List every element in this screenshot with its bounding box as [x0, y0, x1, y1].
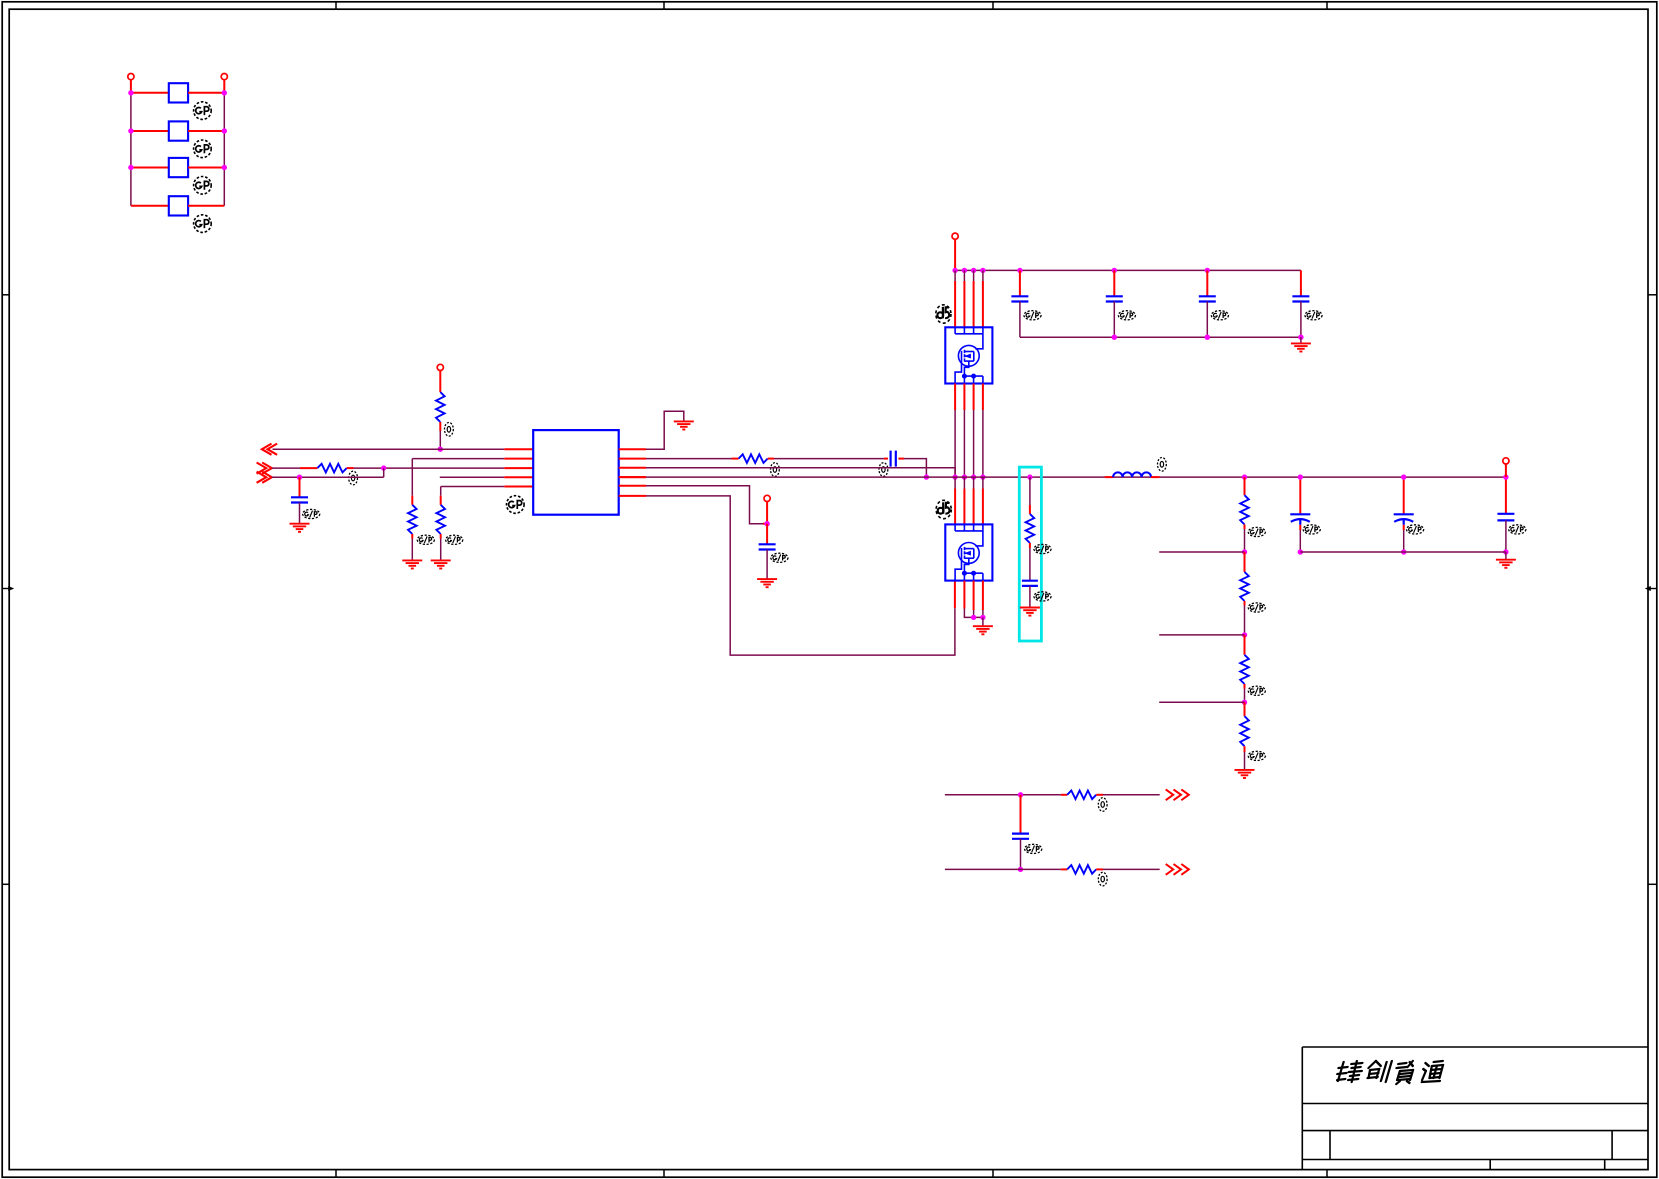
- junction top rail C4: [1017, 268, 1022, 273]
- wire C6 red below: [1403, 525, 1405, 530]
- wire R8 top red: [1244, 552, 1246, 572]
- capacitor C5: [1290, 514, 1310, 525]
- node P1 terminal left: [128, 74, 134, 80]
- wire w1 Q1 to rail red: [954, 384, 956, 411]
- wire rpin2 c: [904, 459, 926, 478]
- label R7 GP: [1248, 527, 1265, 536]
- wire pin5 vertical: [440, 487, 442, 496]
- wire R1 top stub: [439, 371, 441, 392]
- label GP jumper J4: [194, 215, 212, 233]
- wire R4 bottom red: [440, 534, 442, 539]
- wire rpin2 b: [774, 458, 884, 460]
- wire rpin2 red into R5: [732, 458, 739, 460]
- wire Q2 s3 red: [973, 581, 975, 610]
- capacitor C2: [891, 451, 896, 467]
- junction out rail C5: [1298, 549, 1303, 554]
- resistor R8: [1240, 572, 1249, 601]
- wire jumper row 1 right: [188, 92, 224, 94]
- wire outA b: [1103, 794, 1160, 796]
- wire bottom rail gnd stub: [1300, 337, 1302, 343]
- wire w2 rail to Q1 purple: [963, 270, 965, 281]
- wire C6 top red: [1403, 477, 1405, 514]
- connector input row1 chevrons: [262, 444, 277, 455]
- label C4 GP: [1024, 311, 1041, 320]
- junction outA tap: [1018, 792, 1023, 797]
- ground output bank: [1496, 560, 1516, 568]
- capacitor C7: [1292, 296, 1309, 301]
- label C6 GP: [1211, 311, 1228, 320]
- ground C3: [757, 579, 777, 587]
- junction top rail w1: [952, 268, 957, 273]
- label C1 GP: [303, 509, 320, 518]
- company name text: [1336, 1061, 1364, 1082]
- connector outB chevrons: [1166, 864, 1189, 875]
- ground R4: [431, 560, 451, 568]
- wire w1 Q1 to rail purple: [954, 410, 956, 477]
- wire VIN stub: [954, 239, 956, 270]
- wire w4 rail to Q1 purple: [982, 270, 984, 281]
- wire C7 top red: [1505, 477, 1507, 514]
- label R10 GP: [1248, 751, 1265, 760]
- wire outB a: [945, 868, 1061, 870]
- wire C5 top stub: [1113, 270, 1115, 296]
- wire rpin5 stub: [619, 485, 646, 487]
- wire out bottom rail: [1300, 551, 1506, 553]
- wire rpin2 stub: [619, 458, 646, 460]
- wire row3 a: [272, 467, 300, 469]
- wire C5 bottom: [1113, 302, 1115, 338]
- wire C5 top red: [1299, 477, 1301, 514]
- capacitor C6: [1199, 296, 1216, 301]
- junction R1 row1: [438, 447, 443, 452]
- wire row1 purple: [273, 448, 505, 450]
- wire R12 right red: [1096, 868, 1103, 870]
- wire rpin3 purple: [646, 468, 955, 477]
- label C2 value: [879, 463, 888, 477]
- capacitor C5: [1106, 296, 1123, 301]
- wire C7 bottom: [1505, 520, 1507, 552]
- label C5 GP: [1118, 311, 1135, 320]
- wire R2 bottom red: [411, 534, 413, 539]
- wire main rail: [646, 476, 1506, 478]
- wire R9 top red: [1244, 635, 1246, 655]
- ground C1: [290, 524, 310, 532]
- wire R2 top stub: [411, 496, 413, 505]
- wire jumper row 4 left: [131, 205, 169, 207]
- label C7 GP: [1509, 525, 1526, 534]
- wire inductor right red: [1151, 476, 1159, 478]
- wire R10 to ground: [1244, 752, 1246, 770]
- wire Q2 gate red: [954, 581, 956, 609]
- wire outB b: [1103, 868, 1160, 870]
- wire pin5 purple: [441, 486, 505, 488]
- wire rpin1 to ground: [646, 411, 684, 449]
- label R9 GP: [1248, 686, 1265, 695]
- label R12 value: [1098, 872, 1107, 886]
- wire rpin5 red to node: [763, 523, 767, 525]
- ground U1 pin1: [674, 421, 694, 429]
- wire w2 Q1 to rail purple: [963, 410, 965, 477]
- node P2 terminal right: [221, 74, 227, 80]
- wire C7 top stub: [1300, 270, 1302, 296]
- label GP U1: [507, 496, 525, 514]
- wire w4 rail to Q2 red: [982, 489, 984, 525]
- transistor Q2: [945, 524, 992, 580]
- wire jumper row 2 right: [188, 130, 224, 132]
- node VIN terminal: [952, 233, 958, 239]
- junction main rail w4: [980, 474, 985, 479]
- wire C1 to ground: [299, 503, 301, 524]
- node VCC terminal R1: [437, 364, 443, 370]
- label R8 GP: [1248, 603, 1265, 612]
- junction left rail row 1: [128, 90, 133, 95]
- wire C5 bottom: [1299, 530, 1301, 552]
- capacitor C3: [759, 544, 776, 549]
- wire jumper row 3 right: [188, 167, 224, 169]
- wire Q2 s4 red: [982, 581, 984, 610]
- wire outA a: [945, 794, 1061, 796]
- wire w1 rail to Q1 purple: [954, 270, 956, 281]
- jumper J1: [169, 83, 188, 102]
- wire pin2 purple: [412, 458, 504, 460]
- wire w1 rail to Q2 red: [954, 489, 956, 525]
- wire sense a: [1029, 477, 1031, 505]
- wire R11 left red: [1061, 794, 1067, 796]
- wire Q2 s2 red: [963, 581, 965, 609]
- wire C7 bottom: [1300, 302, 1302, 338]
- ground R2: [402, 560, 422, 568]
- wire R12 left red: [1061, 868, 1067, 870]
- junction right rail row 3: [222, 165, 227, 170]
- wire top rail: [955, 269, 1301, 271]
- jumper J2: [169, 121, 188, 140]
- junction outB tap: [1018, 867, 1023, 872]
- wire divider tap1: [1159, 551, 1244, 553]
- junction C3 node: [764, 521, 769, 526]
- wire w3 rail to Q2 red: [973, 489, 975, 525]
- title block: [1302, 1047, 1648, 1170]
- capacitor C6: [1394, 514, 1414, 525]
- wire w4 rail to Q1 red: [982, 281, 984, 327]
- border center arrow right: [1645, 586, 1657, 591]
- junction left rail row 2: [128, 128, 133, 133]
- wire R8 to node: [1244, 606, 1246, 635]
- wire R10 bottom red: [1244, 746, 1246, 752]
- label R6 GP: [1034, 544, 1051, 553]
- wire rpin5 purple: [646, 486, 763, 524]
- junction top rail w4: [980, 268, 985, 273]
- wire C8 to ground: [1029, 586, 1031, 608]
- wire R8 bottom red: [1244, 601, 1246, 606]
- label R4 GP: [446, 535, 463, 544]
- wire top cap bank bottom rail: [1020, 336, 1301, 338]
- wire pin2 stub: [504, 458, 533, 460]
- wire w3 rail to Q2 purple: [973, 477, 975, 488]
- resistor R6: [1026, 514, 1035, 543]
- jumper J4: [169, 196, 188, 215]
- junction right rail row 1: [222, 90, 227, 95]
- wire rpin6 stub: [619, 495, 646, 497]
- wire C6 bottom: [1403, 530, 1405, 552]
- wire pin2 vertical: [411, 459, 413, 496]
- border center arrow left: [2, 586, 14, 591]
- wire R7 top red: [1244, 477, 1246, 495]
- resistor R11: [1067, 791, 1096, 800]
- node VOUT terminal: [1503, 458, 1509, 464]
- junction rpin2 rail: [924, 474, 929, 479]
- junction divider node3: [1242, 700, 1247, 705]
- wire C1 top stub: [299, 477, 301, 497]
- wire R4 top stub: [440, 496, 442, 505]
- capacitor C9: [1012, 834, 1029, 839]
- wire right rail: [223, 93, 225, 206]
- wire C3 to ground: [766, 550, 768, 580]
- junction main rail w3: [971, 474, 976, 479]
- resistor R7: [1240, 495, 1249, 524]
- label R5 value: [771, 463, 780, 477]
- junction C1 tap: [297, 475, 302, 480]
- node terminal C3: [764, 495, 770, 501]
- wire w2 rail to Q2 red: [963, 489, 965, 525]
- label R2 GP: [417, 535, 434, 544]
- label L1 value: [1158, 458, 1167, 472]
- wire jumper row 1 left: [131, 92, 169, 94]
- wire rpin2 red out R5: [768, 458, 774, 460]
- junction right rail row 2: [222, 128, 227, 133]
- wire rpin3 stub: [619, 467, 646, 469]
- wire C4 bottom: [1019, 302, 1021, 338]
- junction bottom rail c: [1298, 335, 1303, 340]
- wire Q2 s3 purple: [973, 610, 975, 617]
- wire jumper row 2 left: [131, 130, 169, 132]
- wire R1 bottom to row: [439, 431, 441, 449]
- wire w3 Q1 to rail red: [973, 384, 975, 411]
- wire terminal right stub: [223, 80, 225, 93]
- junction rail C6: [1401, 474, 1406, 479]
- wire row3 pin stub: [504, 467, 533, 469]
- resistor R5: [739, 454, 768, 463]
- wire Q2 source to ground: [982, 617, 984, 626]
- junction rail C7: [1503, 474, 1508, 479]
- wire Q2 s2 purple: [964, 609, 983, 618]
- junction out rail C7: [1503, 549, 1508, 554]
- wire R7 bottom red: [1244, 524, 1246, 529]
- wire divider tap3: [1159, 701, 1244, 703]
- label C6 GP: [1407, 525, 1424, 534]
- wire w3 rail to Q1 purple: [973, 270, 975, 281]
- wire C4 top stub: [1019, 270, 1021, 296]
- label C5 GP: [1303, 525, 1320, 534]
- wire jumper row 4 right: [188, 205, 224, 207]
- junction node row3: [381, 465, 386, 470]
- label Q1 designator: [936, 305, 951, 323]
- wire w2 rail to Q1 red: [963, 281, 965, 327]
- wire R10 top red: [1244, 702, 1246, 716]
- wire R11 right red: [1096, 794, 1103, 796]
- junction sense tap: [1027, 474, 1032, 479]
- label R3 value: [349, 471, 358, 485]
- junction Q2 source b: [980, 615, 985, 620]
- ground top cap bank: [1291, 343, 1311, 351]
- ground Q2 source: [973, 626, 993, 634]
- resistor R12: [1067, 865, 1096, 874]
- label GP jumper J1: [194, 102, 212, 120]
- wire w4 Q1 to rail purple: [982, 410, 984, 477]
- junction left rail row 3: [128, 165, 133, 170]
- wire row4 purple: [272, 476, 384, 478]
- wire w1 rail to Q1 red: [954, 281, 956, 327]
- connector input row4 chevrons: [257, 472, 272, 483]
- capacitor C8: [1022, 581, 1038, 586]
- resistor R9: [1240, 655, 1249, 684]
- junction bottom rail b: [1205, 335, 1210, 340]
- wire R1 bottom stub red: [439, 422, 441, 431]
- junction divider node1: [1242, 549, 1247, 554]
- label R11 value: [1098, 798, 1107, 812]
- label Q2 designator: [936, 500, 951, 518]
- resistor R3: [317, 464, 346, 473]
- wire row3 b: [354, 467, 505, 469]
- wire C5 red below: [1299, 525, 1301, 530]
- label C7 GP: [1305, 311, 1322, 320]
- wire R6 bottom red: [1029, 543, 1031, 548]
- connector outA chevrons: [1166, 789, 1189, 800]
- wire R9 to node: [1244, 689, 1246, 703]
- junction out rail C6: [1401, 549, 1406, 554]
- wire sense b: [1029, 548, 1031, 581]
- resistor R10: [1240, 716, 1249, 746]
- wire rpin1 stub: [619, 448, 646, 450]
- ground sense branch: [1020, 608, 1040, 616]
- wire R9 bottom red: [1244, 684, 1246, 689]
- connector input row3 chevrons: [257, 463, 272, 474]
- wire C6 top stub: [1206, 270, 1208, 296]
- label C9 GP: [1025, 844, 1042, 853]
- wire pin5 stub: [504, 486, 533, 488]
- wire main rail red near ic: [619, 476, 646, 478]
- wire R4 to ground: [440, 539, 442, 561]
- wire divider tap2: [1159, 634, 1244, 636]
- highlight box: [1019, 467, 1041, 641]
- wire w4 Q1 to rail red: [982, 384, 984, 411]
- label GP jumper J3: [194, 177, 212, 195]
- wire w3 Q1 to rail purple: [973, 410, 975, 477]
- wire R6 top red: [1029, 505, 1031, 514]
- junction rail divider: [1242, 474, 1247, 479]
- wire row4 step up: [383, 468, 385, 477]
- resistor R1: [436, 392, 445, 422]
- wire C3 top stub: [766, 524, 768, 545]
- junction top rail w2: [962, 268, 967, 273]
- wire terminal left stub: [130, 80, 132, 93]
- wire rpin2 a: [646, 458, 732, 460]
- transistor Q1: [945, 327, 992, 383]
- wire left rail: [130, 93, 132, 206]
- wire Q2 s4 purple: [982, 610, 984, 617]
- wire w4 rail to Q2 purple: [982, 477, 984, 488]
- junction Q2 source a: [971, 615, 976, 620]
- label C8 GP: [1034, 592, 1051, 601]
- wire R7 to node: [1244, 529, 1246, 552]
- wire rpin4 stub: [619, 476, 646, 478]
- wire row3 red out R3: [347, 467, 354, 469]
- wire row3 red into R3: [300, 467, 317, 469]
- wire R2 to ground: [411, 539, 413, 561]
- ic U1: [533, 430, 619, 515]
- jumper J3: [169, 158, 188, 177]
- wire w3 rail to Q1 red: [973, 281, 975, 327]
- wire pin4 stub: [504, 476, 533, 478]
- wire out gnd stub: [1505, 552, 1507, 560]
- label C3 GP: [771, 553, 788, 562]
- wire w2 rail to Q2 purple: [963, 477, 965, 488]
- junction divider node2: [1242, 632, 1247, 637]
- capacitor C1: [291, 497, 308, 502]
- wire jumper row 3 left: [131, 167, 169, 169]
- resistor R4: [436, 505, 445, 534]
- label GP jumper J2: [194, 140, 212, 158]
- wire row1 pin stub: [504, 448, 533, 450]
- junction top rail C6: [1205, 268, 1210, 273]
- wire pin4 purple: [440, 476, 505, 478]
- wire C6 bottom: [1206, 302, 1208, 338]
- inductor L1: [1113, 472, 1151, 477]
- resistor R2: [408, 505, 417, 534]
- capacitor C4: [1011, 296, 1028, 301]
- wire VOUT stub: [1505, 464, 1507, 477]
- wire rpin6 feedback: [646, 496, 955, 655]
- wire C2 right red: [898, 458, 904, 460]
- junction top rail w3: [971, 268, 976, 273]
- wire C9 top red: [1020, 795, 1022, 834]
- capacitor C7: [1497, 514, 1514, 521]
- wire w2 Q1 to rail red: [963, 384, 965, 411]
- junction rail C5: [1298, 474, 1303, 479]
- junction main rail w1: [952, 474, 957, 479]
- wire C2 left red: [884, 458, 888, 460]
- wire w1 rail to Q2 purple: [954, 477, 956, 488]
- wire inductor left red: [1105, 476, 1113, 478]
- junction main rail w2: [962, 474, 967, 479]
- junction top rail C5: [1112, 268, 1117, 273]
- ground divider: [1235, 770, 1255, 778]
- junction bottom rail a: [1112, 335, 1117, 340]
- wire C9 bottom: [1020, 839, 1022, 870]
- wire C3 term stub: [766, 502, 768, 524]
- label R1 value: [445, 423, 454, 437]
